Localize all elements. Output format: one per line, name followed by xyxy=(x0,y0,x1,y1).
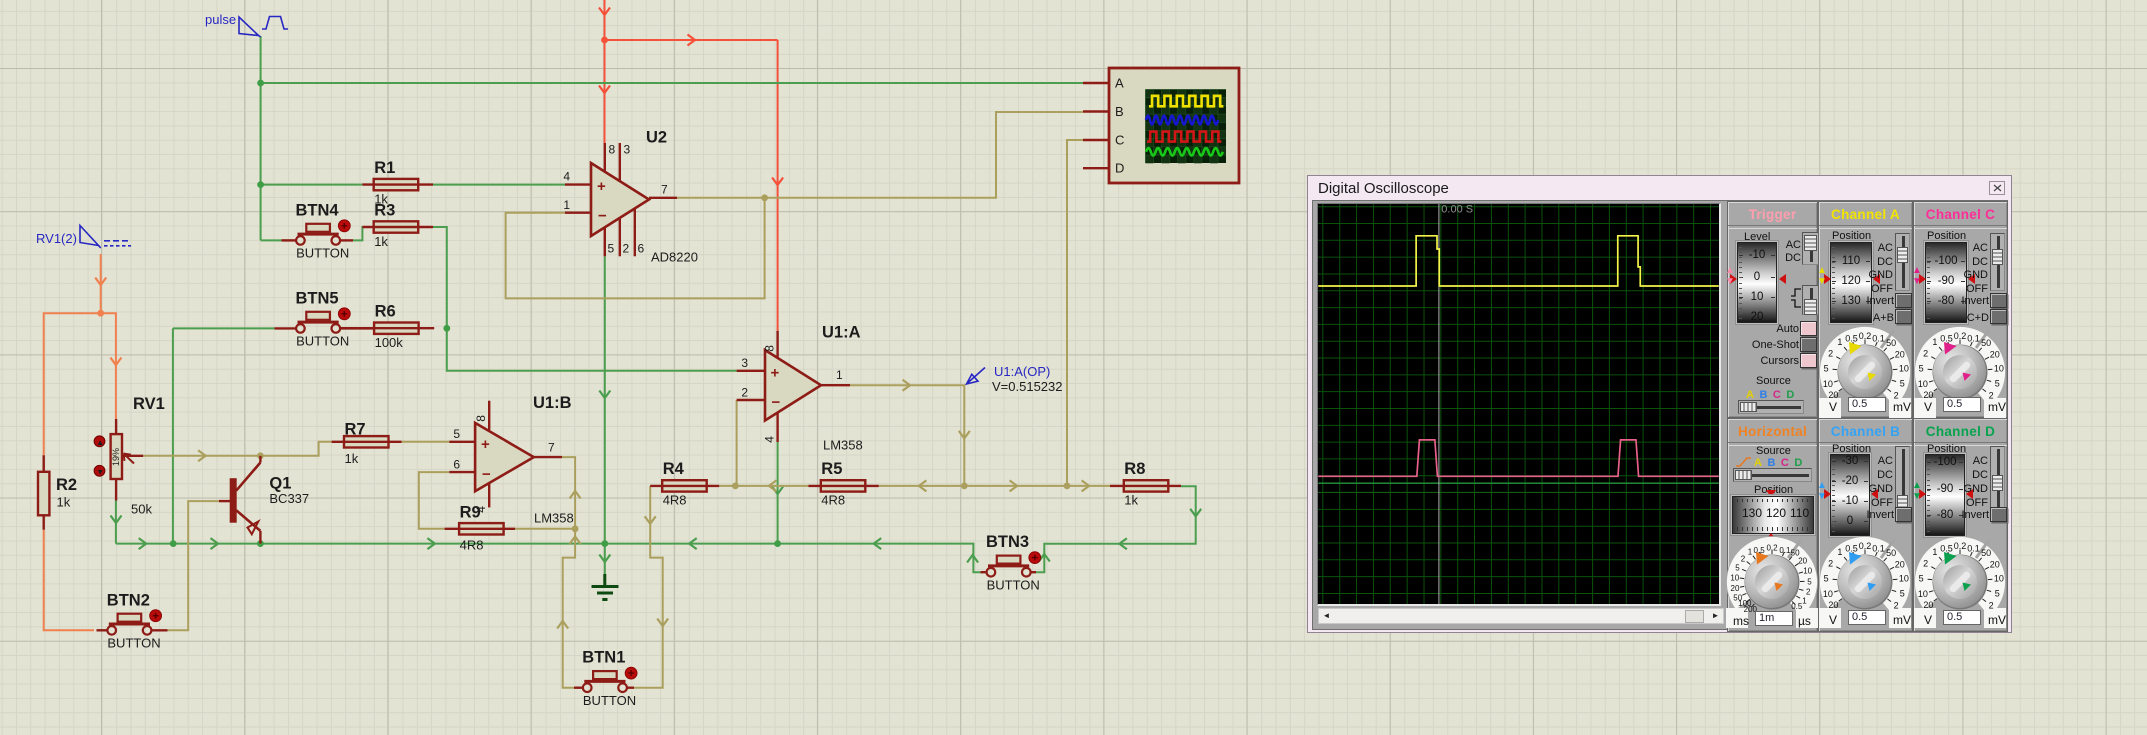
svg-text:4: 4 xyxy=(563,170,570,184)
wire red H y=40 xyxy=(605,39,778,41)
resistor R3 xyxy=(374,201,419,249)
op-amp U2 xyxy=(563,129,698,265)
arrow green left bus4 xyxy=(689,538,697,549)
wire olive U2 feedback loop xyxy=(506,198,765,299)
wire olive U1:B out down xyxy=(562,457,575,688)
resistor R4 xyxy=(662,460,707,508)
svg-text:20: 20 xyxy=(1895,349,1905,359)
svg-text:2: 2 xyxy=(1923,349,1928,359)
wire olive C-line xyxy=(1067,140,1083,486)
node junction (735.4,485.9) xyxy=(732,483,739,490)
svg-text:10: 10 xyxy=(1823,589,1833,599)
svg-text:19%: 19% xyxy=(111,448,121,466)
svg-text:2: 2 xyxy=(1894,601,1899,611)
svg-text:4: 4 xyxy=(763,436,777,443)
svg-text:R4: R4 xyxy=(663,460,685,478)
wire green bus y=543.6 xyxy=(116,544,982,573)
svg-text:0.5: 0.5 xyxy=(1940,334,1953,344)
wire olive row R5 right xyxy=(879,485,1110,487)
wire olive U2 out row y=197.8 xyxy=(677,112,1083,198)
wire green H to BTN4 xyxy=(261,239,282,241)
svg-text:1: 1 xyxy=(836,368,843,382)
wire olive U1:A pin2 loop xyxy=(736,400,738,486)
node junction (964.3,485.9) xyxy=(961,483,968,490)
svg-text:5: 5 xyxy=(1995,588,2000,598)
svg-text:5: 5 xyxy=(1735,563,1740,572)
svg-text:10: 10 xyxy=(1994,574,2004,584)
arrow orange down probe xyxy=(95,278,106,286)
wire olive R7 to U1:B pin5 xyxy=(402,441,450,443)
svg-text:4: 4 xyxy=(474,506,488,513)
svg-text:8: 8 xyxy=(474,415,488,422)
svg-text:50k: 50k xyxy=(131,502,152,517)
svg-text:−: − xyxy=(772,394,781,411)
svg-text:0.1: 0.1 xyxy=(1779,546,1791,555)
node junction red (604.5,40) xyxy=(601,37,608,44)
arrow red down x=777.6 xyxy=(772,178,783,186)
svg-text:8: 8 xyxy=(609,143,616,157)
node junction (260.6,184.6) xyxy=(257,181,264,188)
svg-text:BUTTON: BUTTON xyxy=(987,578,1040,593)
svg-text:1k: 1k xyxy=(1124,493,1138,508)
svg-text:5: 5 xyxy=(1900,588,1905,598)
wire green BTN5 row xyxy=(173,327,275,329)
svg-text:R3: R3 xyxy=(374,201,395,219)
svg-text:4R8: 4R8 xyxy=(663,493,687,508)
svg-text:0.1: 0.1 xyxy=(1872,544,1885,554)
node junction (260.4,543.6) xyxy=(257,540,264,547)
node junction (100.7,313.2) xyxy=(97,310,104,317)
svg-text:U2: U2 xyxy=(646,129,667,147)
resistor R8 xyxy=(1124,460,1169,508)
svg-text:8: 8 xyxy=(763,345,777,352)
wire olive BTN2 right to Q1 base xyxy=(167,501,219,630)
arrow green left bus5 xyxy=(874,538,882,549)
arrow green right bus2 xyxy=(211,538,219,549)
arrow green down U1:A pin4 xyxy=(772,487,783,495)
svg-text:BUTTON: BUTTON xyxy=(296,334,349,349)
wire green pulse vertical x=260.6 xyxy=(260,36,262,240)
svg-text:3: 3 xyxy=(624,143,631,157)
svg-text:1k: 1k xyxy=(374,234,388,249)
arrow green right bus3 xyxy=(427,538,435,549)
wire olive BTN1 right to R4 xyxy=(633,486,662,688)
resistor R6 xyxy=(374,303,419,351)
wire orange probe vertical xyxy=(100,254,102,313)
node junction (575.1,528.8) xyxy=(572,525,579,532)
svg-text:2: 2 xyxy=(741,385,748,399)
arrow olive up x=575.1 a xyxy=(570,491,581,499)
node junction (173.2,543.6) xyxy=(170,540,177,547)
svg-text:20: 20 xyxy=(1990,559,2000,569)
svg-text:5: 5 xyxy=(1995,378,2000,388)
svg-text:20: 20 xyxy=(1798,557,1807,566)
arrow olive right wiper row xyxy=(198,450,206,461)
wire green U1:A pin4 vertical xyxy=(777,442,779,544)
svg-text:50: 50 xyxy=(1886,548,1896,558)
wire green R6 junction down to U1:A+ row xyxy=(447,328,737,371)
resistor R1 xyxy=(374,159,419,207)
arrow olive right y=485.9 b xyxy=(1082,480,1090,491)
svg-text:10: 10 xyxy=(1994,364,2004,374)
pin R5 stubs xyxy=(808,485,878,487)
op-amp U1:A xyxy=(737,324,863,453)
svg-text:5: 5 xyxy=(453,427,460,441)
svg-text:1: 1 xyxy=(1837,337,1842,347)
wire orange R2 bottom to BTN2 xyxy=(44,530,94,631)
button BTN2 xyxy=(97,591,168,650)
wire green R1 row right to U2 pin4 xyxy=(433,184,565,186)
pin R6 stubs xyxy=(339,327,434,329)
svg-text:1: 1 xyxy=(1837,547,1842,557)
svg-text:0.5: 0.5 xyxy=(1791,602,1803,611)
resistor R2 xyxy=(38,455,77,530)
svg-text:U1:A: U1:A xyxy=(822,324,861,342)
svg-text:10: 10 xyxy=(1803,566,1812,575)
svg-text:4R8: 4R8 xyxy=(821,493,845,508)
arrow red down x=604.5 xyxy=(599,86,610,94)
svg-text:5: 5 xyxy=(1919,574,1924,584)
svg-text:RV1(2): RV1(2) xyxy=(36,231,77,246)
svg-text:BC337: BC337 xyxy=(269,491,309,506)
node junction (604.8,543.6) xyxy=(601,540,608,547)
svg-text:LM358: LM358 xyxy=(823,438,863,453)
svg-text:1: 1 xyxy=(1932,547,1937,557)
arrow olive right U1:A out xyxy=(903,380,911,391)
wire green R8 right to BTN3 xyxy=(1036,486,1196,572)
svg-text:B: B xyxy=(1115,104,1124,119)
svg-text:20: 20 xyxy=(1895,559,1905,569)
svg-text:C: C xyxy=(1115,133,1124,148)
ground xyxy=(592,574,619,600)
pin R1 stubs xyxy=(362,183,433,185)
wire orange junction elbow to RV1 xyxy=(101,313,116,419)
svg-text:5: 5 xyxy=(1807,577,1812,586)
wire green R3 to R6 junction xyxy=(418,227,447,328)
svg-text:2: 2 xyxy=(1989,601,1994,611)
horizontal scrollbar xyxy=(1318,608,1724,624)
arrow orange down to RV1 xyxy=(110,358,121,366)
svg-text:5: 5 xyxy=(1824,574,1829,584)
svg-text:0.1: 0.1 xyxy=(1967,544,1980,554)
node junction (446.8,328.3) xyxy=(443,325,450,332)
pin R4 stubs xyxy=(650,485,719,487)
arrow olive left y=485.9 a xyxy=(769,480,777,491)
svg-text:0.5: 0.5 xyxy=(1845,334,1858,344)
node junction (1067,485.9) xyxy=(1064,483,1071,490)
wire olive U1:A out xyxy=(850,385,964,486)
svg-text:5: 5 xyxy=(1900,378,1905,388)
wire green BTN5 left vertical x=172.9 xyxy=(172,328,174,543)
svg-text:BTN3: BTN3 xyxy=(986,533,1029,551)
arrow green right bus1 xyxy=(139,538,147,549)
svg-text:LM358: LM358 xyxy=(534,511,574,526)
svg-text:R2: R2 xyxy=(56,476,77,494)
node junction (777.6,543.6) xyxy=(774,540,781,547)
oscilloscope graph part xyxy=(1083,68,1239,183)
svg-text:10: 10 xyxy=(1918,589,1928,599)
arrow green down x=604.8 xyxy=(599,391,610,399)
svg-text:R1: R1 xyxy=(374,159,395,177)
wire olive U1:B pin6 loop xyxy=(419,472,450,529)
svg-text:1k: 1k xyxy=(57,495,71,510)
arrow green down x=1195.7 xyxy=(1190,509,1201,517)
svg-text:▲: ▲ xyxy=(96,438,104,447)
svg-text:5: 5 xyxy=(1824,364,1829,374)
transistor Q1 xyxy=(219,456,309,544)
node junction (260.6,83) xyxy=(257,80,264,87)
svg-text:−: − xyxy=(598,208,607,225)
svg-text:U1:A(OP): U1:A(OP) xyxy=(994,364,1050,379)
svg-text:5: 5 xyxy=(608,242,615,256)
svg-text:R5: R5 xyxy=(821,460,842,478)
resistor R5 xyxy=(821,460,866,508)
wire red V x=777.6 (to U2 out node and U1:A pin8) xyxy=(777,40,779,331)
svg-text:2: 2 xyxy=(1894,391,1899,401)
svg-text:RV1: RV1 xyxy=(133,395,165,413)
svg-text:2: 2 xyxy=(1923,559,1928,569)
svg-text:10: 10 xyxy=(1918,379,1928,389)
svg-text:pulse: pulse xyxy=(205,12,236,27)
wire green ground stub from bus xyxy=(604,544,606,575)
svg-text:3: 3 xyxy=(741,356,748,370)
svg-text:20: 20 xyxy=(1923,600,1933,610)
arrow olive up x=575.1 b xyxy=(570,537,581,545)
arrow olive down x=964.3 xyxy=(959,431,970,439)
svg-text:2: 2 xyxy=(1741,554,1746,563)
svg-text:1: 1 xyxy=(1932,337,1937,347)
svg-text:V=0.515232: V=0.515232 xyxy=(992,379,1062,394)
wire green R1 row left xyxy=(261,184,363,186)
arrow green up x=972.6 xyxy=(967,555,978,563)
svg-text:6: 6 xyxy=(638,242,645,256)
svg-text:10: 10 xyxy=(1730,573,1739,582)
svg-text:2: 2 xyxy=(1828,349,1833,359)
svg-text:BTN5: BTN5 xyxy=(296,289,339,307)
button BTN3 xyxy=(981,533,1041,592)
svg-text:0.00 S: 0.00 S xyxy=(1441,204,1473,216)
arrow olive up x=562.7 xyxy=(557,621,568,629)
svg-text:20: 20 xyxy=(1731,584,1740,593)
svg-text:50: 50 xyxy=(1981,338,1991,348)
button BTN4 xyxy=(282,201,354,260)
probe U1:A(OP) xyxy=(967,368,986,385)
svg-text:6: 6 xyxy=(453,457,460,471)
svg-text:▼: ▼ xyxy=(96,467,104,476)
pin R9 stubs xyxy=(445,528,515,530)
oscilloscope window Digital Oscilloscope xyxy=(1307,175,2012,633)
wire olive R9 right to junction xyxy=(515,528,575,530)
button BTN1 xyxy=(574,649,637,708)
arrow green left y=543.7 xyxy=(1119,538,1127,549)
wire olive R4-R5-R8 row y=485.9 xyxy=(719,485,808,487)
svg-text:BTN2: BTN2 xyxy=(107,591,150,609)
svg-text:+: + xyxy=(481,436,490,453)
potentiometer RV1 xyxy=(94,395,165,517)
generator pulse xyxy=(239,17,288,38)
close button xyxy=(1989,181,2005,195)
wire orange to R2 xyxy=(44,313,101,455)
svg-text:2: 2 xyxy=(1806,588,1811,597)
svg-text:1k: 1k xyxy=(345,451,359,466)
svg-text:BUTTON: BUTTON xyxy=(583,693,636,708)
arrow red down top xyxy=(599,8,610,16)
svg-text:R6: R6 xyxy=(375,303,396,321)
svg-text:20: 20 xyxy=(1828,390,1838,400)
svg-text:BUTTON: BUTTON xyxy=(296,246,349,261)
svg-text:1: 1 xyxy=(1802,597,1807,606)
svg-text:BTN1: BTN1 xyxy=(582,649,625,667)
svg-text:100k: 100k xyxy=(375,335,404,350)
svg-text:50: 50 xyxy=(1981,548,1991,558)
svg-text:+: + xyxy=(771,364,780,381)
arrow green up x=1044.3 xyxy=(1039,554,1050,562)
arrow green down to ground xyxy=(599,555,610,563)
arrow olive left y=485.9 b xyxy=(919,480,927,491)
svg-text:R7: R7 xyxy=(345,421,366,439)
svg-text:BUTTON: BUTTON xyxy=(107,636,160,651)
wire green RV1 bottom vertical xyxy=(115,501,117,544)
svg-text:5: 5 xyxy=(1919,364,1924,374)
svg-text:20: 20 xyxy=(1990,349,2000,359)
wire red V x=604.5 (top feed) xyxy=(604,0,606,143)
svg-text:0.1: 0.1 xyxy=(1967,334,1980,344)
svg-text:4R8: 4R8 xyxy=(460,538,484,553)
arrow red right y=40 xyxy=(688,35,696,46)
svg-text:Q1: Q1 xyxy=(269,475,291,493)
wire olive RV1 wiper row y=455.8 xyxy=(143,442,331,456)
pin R8 stubs xyxy=(1110,485,1181,487)
svg-text:20: 20 xyxy=(1923,390,1933,400)
op-amp U1:B xyxy=(449,394,573,526)
svg-text:0.5: 0.5 xyxy=(1845,544,1858,554)
svg-text:2: 2 xyxy=(1989,391,1994,401)
arrow olive down x=662.7 xyxy=(657,619,668,627)
svg-text:1: 1 xyxy=(1748,548,1753,557)
scope display xyxy=(1317,203,1721,606)
arrow olive right y=485.9 a xyxy=(1010,480,1018,491)
button BTN5 xyxy=(275,289,375,348)
pin R3 stubs xyxy=(362,226,433,228)
wire green U2 pin5 vertical x=604.8 xyxy=(604,256,606,543)
svg-text:+: + xyxy=(597,178,606,195)
svg-text:20: 20 xyxy=(1828,600,1838,610)
svg-text:2: 2 xyxy=(623,242,630,256)
svg-text:0.1: 0.1 xyxy=(1872,334,1885,344)
svg-text:R8: R8 xyxy=(1124,460,1145,478)
node junction (764.6,197.8) xyxy=(761,194,768,201)
svg-text:D: D xyxy=(1115,161,1124,176)
arrow olive down x=650.2 xyxy=(645,516,656,524)
resistor R9 xyxy=(459,504,504,553)
arrow green down RV1 bottom xyxy=(111,516,122,524)
svg-text:10: 10 xyxy=(1899,364,1909,374)
svg-text:U1:B: U1:B xyxy=(533,394,572,412)
svg-text:−: − xyxy=(482,466,491,483)
svg-text:50: 50 xyxy=(1886,338,1896,348)
svg-text:10: 10 xyxy=(1823,379,1833,389)
resistor R7 xyxy=(344,421,389,467)
svg-text:10: 10 xyxy=(1899,574,1909,584)
probe RV1(2) xyxy=(80,226,131,249)
wire green jog BTN4-R3 xyxy=(353,227,374,240)
node junction (260.4,456) xyxy=(257,452,264,459)
wire green A-line y=83 xyxy=(261,82,1083,84)
svg-text:A: A xyxy=(1115,76,1124,91)
svg-text:2: 2 xyxy=(1828,559,1833,569)
svg-text:BTN4: BTN4 xyxy=(296,201,340,219)
svg-text:7: 7 xyxy=(661,183,668,197)
pin R7 stubs xyxy=(332,441,402,443)
svg-text:0.5: 0.5 xyxy=(1940,544,1953,554)
svg-text:AD8220: AD8220 xyxy=(651,250,698,265)
svg-text:1: 1 xyxy=(563,198,570,212)
svg-text:7: 7 xyxy=(548,441,555,455)
